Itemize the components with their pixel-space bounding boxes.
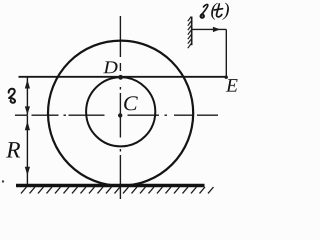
arrowhead r bottom (down) bbox=[25, 106, 30, 114]
scan speck bottom-left bbox=[2, 180, 4, 182]
s(t) arrow line from wall bbox=[192, 28, 226, 30]
label s(t): (t) bbox=[211, 3, 218, 20]
label s(t): script s bbox=[201, 4, 208, 17]
arrowhead R bottom (down) bbox=[25, 167, 30, 176]
inner circle (hub) bbox=[86, 77, 155, 146]
label R bbox=[6, 142, 20, 157]
point E bbox=[225, 76, 228, 79]
vertical cord segment from s(t) line down to E bbox=[225, 29, 227, 77]
label E bbox=[226, 79, 238, 91]
big circle (wheel outer rim) bbox=[48, 41, 193, 186]
label C bbox=[124, 96, 138, 110]
wall hatching bbox=[188, 17, 192, 49]
dimension line r (center line to cord line) bbox=[26, 78, 28, 116]
wall anchor line bbox=[191, 17, 193, 46]
label D bbox=[103, 61, 117, 73]
s(t) arrowhead bbox=[213, 27, 220, 32]
arrowhead r top (up) bbox=[25, 80, 30, 89]
ground hatching bbox=[21, 187, 214, 193]
point D bbox=[118, 75, 123, 80]
label r (rotated script, mirrored-2 shape) bbox=[9, 89, 15, 103]
vertical center line through C bbox=[119, 16, 121, 199]
horizontal center line through C (dash-dot) bbox=[15, 114, 218, 116]
point C bbox=[118, 113, 122, 117]
arrowhead R top (up) bbox=[25, 121, 30, 130]
cord line through D to E bbox=[19, 76, 227, 78]
ground line bbox=[16, 184, 205, 187]
dimension line R (ground to center line) bbox=[26, 115, 28, 185]
